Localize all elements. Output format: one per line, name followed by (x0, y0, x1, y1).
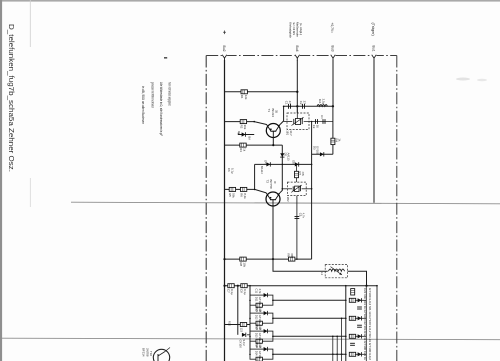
svg-text:R1: R1 (240, 95, 244, 99)
node T2 emitter rail (272, 258, 274, 260)
row 4 loop (250, 349, 273, 359)
wire row bus (249, 286, 251, 353)
svg-text:BA114: BA114 (260, 166, 264, 174)
svg-text:0,1µ: 0,1µ (243, 289, 247, 295)
capacitor inter-row 3 (350, 343, 355, 345)
capacitor C1 (289, 104, 291, 109)
wire xtal2 right (302, 188, 312, 190)
svg-text:680: 680 (290, 253, 294, 258)
wire L1 out (348, 271, 367, 286)
svg-text:R5: R5 (228, 193, 232, 197)
node row 3 cross (345, 335, 347, 337)
wire bus Bu2 (224, 60, 226, 361)
svg-text:BF224: BF224 (271, 109, 275, 118)
wire xtal2 left (282, 188, 292, 190)
wire T1 base feed (225, 122, 267, 125)
resistor top right (351, 289, 355, 295)
node T1 coll (283, 106, 285, 108)
svg-text:C4: C4 (320, 115, 324, 119)
svg-text:4,7k: 4,7k (258, 325, 262, 331)
diode D14 (264, 347, 268, 351)
wire far right drop (376, 286, 378, 361)
wire R7 bot (296, 178, 298, 182)
svg-text:in dB, 50Ω an allen Buchsen: in dB, 50Ω an allen Buchsen (141, 86, 145, 124)
inductor L1 arrow (331, 267, 342, 275)
wire base drop (255, 164, 267, 193)
wire row 2 out (273, 317, 346, 319)
resistor R2 (240, 120, 246, 124)
node drop a (332, 336, 334, 338)
node C5 rail (296, 258, 298, 260)
node T1 emitter (272, 144, 274, 146)
svg-text:35: 35 (274, 110, 278, 113)
svg-text:R2: R2 (239, 125, 243, 129)
row 3 loop (250, 331, 273, 341)
node osc1 right (332, 105, 334, 107)
wire Bu4 into box (296, 106, 298, 118)
wire L1 feed (273, 259, 328, 271)
diode D2 (280, 153, 284, 157)
transistor T2 (266, 192, 280, 206)
svg-text:T10: T10 (149, 351, 153, 356)
wire row2 drop c (341, 318, 343, 361)
transistor T1 (266, 124, 280, 138)
wire xtal1 right (304, 121, 333, 123)
svg-text:L1: L1 (320, 272, 324, 276)
svg-text:9-0,2: 9-0,2 (242, 340, 246, 346)
svg-text:(Träger): (Träger) (371, 23, 375, 36)
svg-text:4,7k: 4,7k (258, 343, 262, 349)
row 2 loop (250, 313, 273, 323)
svg-text:0,1µ: 0,1µ (230, 289, 234, 295)
terminal Bu3 (330, 55, 335, 61)
wire row 1 out (273, 299, 346, 301)
wire bottom bus (225, 285, 378, 287)
inductor Dr1 (317, 105, 327, 107)
resistor R23 (256, 339, 262, 343)
diode D1 (242, 132, 246, 136)
resistor R5 (229, 187, 235, 191)
node osc1/Bu4 (296, 105, 298, 107)
node row4 cross c (341, 353, 343, 355)
capacitor inter-row 1 (357, 307, 362, 309)
svg-text:GY100: GY100 (258, 333, 262, 342)
svg-text:GY100: GY100 (258, 351, 262, 360)
resistor R22 (256, 321, 262, 325)
node row4 cross a (332, 353, 334, 355)
wire C5 branch (296, 196, 298, 260)
diode row 3 right (358, 334, 362, 338)
wire diode branch (239, 134, 255, 136)
wire right feeder (365, 286, 367, 361)
crystal Q1 (292, 117, 304, 125)
svg-text:D_telefunken_fug7b_scha5a Zehn: D_telefunken_fug7b_scha5a Zehner Osz. (7, 24, 16, 172)
wire right riser (345, 286, 347, 361)
svg-text:C6: C6 (227, 168, 231, 172)
diode D13 (264, 329, 268, 333)
resistor row 1 right (349, 298, 355, 302)
svg-text:C12: C12 (255, 307, 259, 312)
node bus row (249, 285, 251, 287)
node row4 cross b (336, 353, 338, 355)
diode D12 (264, 311, 268, 315)
frame border (205, 56, 207, 361)
svg-text:C14: C14 (255, 343, 259, 348)
svg-text:D11: D11 (254, 297, 258, 302)
wire row stub (225, 324, 251, 326)
diode D5 (295, 162, 299, 166)
wire emitter rail (225, 258, 312, 260)
node rail left (223, 258, 225, 260)
svg-text:gemessen mit Röhrenvoltmeter: gemessen mit Röhrenvoltmeter (151, 82, 155, 108)
svg-text:R8: R8 (239, 262, 243, 266)
svg-text:T1: T1 (267, 109, 271, 113)
svg-text:C7: C7 (227, 289, 231, 293)
wire right branch (332, 106, 334, 154)
svg-text:D13: D13 (254, 333, 258, 338)
resistor R12 (240, 323, 246, 327)
svg-text:R9: R9 (286, 253, 290, 257)
wire row 2 right (355, 317, 367, 319)
node D3 left (311, 164, 313, 166)
row 1 loop (250, 295, 273, 305)
wire T2 emitter (272, 206, 274, 259)
wire row 3 out (273, 335, 346, 337)
node link/diode (282, 164, 284, 166)
resistor R9 (289, 257, 295, 261)
node base join (253, 121, 255, 123)
resistor R21 (256, 303, 262, 307)
terminal Bu1 (371, 55, 376, 61)
resistor row 2 right (349, 316, 355, 320)
terminal Bu2 (222, 55, 227, 61)
svg-text:GY100 9-0,2 SD-19 GY100 9-0,2: GY100 9-0,2 SD-19 GY100 9-0,2 SD-19 GY10… (368, 288, 372, 360)
svg-text:Dr1: Dr1 (318, 99, 322, 104)
wire row 4 out (273, 353, 346, 355)
svg-text:GY100: GY100 (258, 297, 262, 306)
svg-text:D14: D14 (254, 351, 258, 356)
wire xtal1 left (284, 121, 293, 123)
node row 2 cross (345, 317, 347, 319)
svg-text:30: 30 (315, 125, 319, 128)
wire diode line (255, 163, 312, 165)
resistor row 4 right (349, 352, 355, 356)
resistor R1 (241, 90, 247, 94)
svg-text:IX: IX (273, 181, 277, 184)
capacitor C4 (323, 119, 325, 124)
node drop b (336, 336, 338, 338)
svg-text:BF214: BF214 (142, 348, 146, 357)
node row 1 cross (345, 299, 347, 301)
node far right (376, 285, 378, 287)
wire row 3 right (355, 335, 367, 337)
node bus L1 (365, 285, 367, 287)
svg-text:BA: BA (248, 136, 252, 140)
svg-text:C21 10n R31 1k GY100 C22 10n R: C21 10n R31 1k GY100 C22 10n R32 1k GY10… (363, 288, 367, 361)
svg-text:4,7k: 4,7k (258, 289, 262, 295)
resistor R6 (240, 187, 246, 191)
node drop c (341, 318, 343, 320)
node bus left (223, 285, 225, 287)
svg-text:GY100: GY100 (316, 146, 320, 155)
diode D11 (264, 293, 268, 297)
svg-text:123: 123 (239, 328, 243, 333)
svg-text:10k: 10k (243, 262, 247, 267)
svg-text:Bu4: Bu4 (295, 46, 299, 52)
capacitor C3 (316, 119, 318, 124)
node row 3 left (249, 336, 251, 338)
terminal Bu4 (295, 55, 300, 61)
wire R1 feed (225, 91, 298, 93)
svg-text:(s. Abgl.): (s. Abgl.) (299, 23, 303, 35)
wire osc1 top (284, 105, 333, 107)
svg-text:27: 27 (302, 101, 306, 105)
diode D6 (242, 333, 246, 337)
svg-text:39k: 39k (243, 125, 247, 130)
wire mid vertical (311, 122, 313, 260)
diode D3 (320, 152, 324, 156)
svg-text:Werksabgleich: Werksabgleich (289, 22, 293, 38)
svg-text:Wenn nicht anders angegeben:: Wenn nicht anders angegeben: (167, 82, 171, 106)
node T2 base (254, 189, 256, 191)
wire T1 emitter wire (225, 144, 283, 146)
svg-text:D5: D5 (291, 160, 295, 164)
transistor T3 (153, 349, 169, 361)
svg-text:12k: 12k (244, 95, 248, 100)
wire Bu1 down (373, 60, 375, 203)
crystal Q2 box (287, 182, 306, 196)
crystal Q1 box (287, 113, 309, 129)
capacitor C5 (295, 217, 300, 219)
svg-text:+0,7V≈: +0,7V≈ (330, 23, 334, 34)
wire D6 out (247, 334, 250, 336)
svg-text:Meßsender: Meßsender (296, 22, 300, 37)
test point mark (223, 31, 226, 35)
node row 4 cross (345, 353, 347, 355)
svg-text:T2: T2 (266, 180, 270, 184)
wire Bu3 down (332, 60, 334, 106)
resistor R11 (241, 284, 247, 288)
svg-text:C13: C13 (255, 325, 259, 330)
svg-text:R12: R12 (227, 321, 231, 326)
node Bu4/R1 (296, 91, 298, 93)
resistor R24 (256, 357, 262, 361)
inductor L1 box (325, 265, 347, 278)
wire T1 collector (280, 106, 283, 124)
capacitor inter-row 2 (357, 325, 362, 327)
diode row 1 right (358, 298, 362, 302)
crystal Q2 (291, 185, 301, 192)
resistor R7 (295, 171, 299, 177)
svg-text:Bu2: Bu2 (222, 46, 226, 52)
wire Bu4 down (296, 60, 298, 113)
svg-text:Bu1: Bu1 (372, 46, 376, 52)
svg-text:56k: 56k (232, 193, 236, 198)
svg-text:BCY58: BCY58 (269, 180, 273, 190)
resistor R3 (240, 143, 246, 147)
svg-text:47: 47 (288, 101, 292, 105)
svg-text:nur mit MS: nur mit MS (292, 22, 296, 35)
resistor R4 (331, 138, 335, 144)
wire tap vertical (237, 286, 239, 335)
diode D4 (266, 162, 270, 166)
svg-text:1B1: 1B1 (286, 130, 290, 135)
wire T1/T2 link (280, 145, 282, 193)
svg-text:D4: D4 (263, 160, 267, 164)
svg-text:1B2: 1B2 (286, 197, 290, 202)
svg-text:Alle Widerstände in Ω, alle Ko: Alle Widerstände in Ω, alle Kondensatore… (159, 82, 163, 136)
svg-text:GY100: GY100 (258, 315, 262, 324)
wire R7 top (296, 164, 298, 171)
wire row 1 right (355, 299, 367, 301)
svg-text:8,2k: 8,2k (243, 193, 247, 199)
diode row 2 right (358, 316, 362, 320)
node row 3 out (272, 336, 274, 338)
capacitor C2 (303, 104, 305, 109)
svg-text:AA113: AA113 (287, 153, 291, 161)
node row 2 out (272, 318, 274, 320)
node row 4 out (272, 354, 274, 356)
svg-text:C8: C8 (240, 289, 244, 293)
node bus tap (237, 285, 239, 287)
wire T1 emitter (272, 138, 274, 145)
resistor row 3 right (349, 334, 355, 338)
svg-text:R6: R6 (239, 193, 243, 197)
svg-text:Bu3: Bu3 (331, 46, 335, 52)
node xtal1/vert (311, 121, 313, 123)
node R7 top (296, 164, 298, 166)
resistor R10 (228, 284, 234, 288)
svg-text:4,7n: 4,7n (302, 213, 306, 219)
svg-text:C11: C11 (255, 289, 259, 294)
svg-text:D1: D1 (237, 131, 241, 135)
svg-text:4,7k: 4,7k (258, 307, 262, 313)
node row 2 left (249, 318, 251, 320)
svg-text:2N708: 2N708 (145, 348, 149, 357)
wire T2 base feed (225, 188, 255, 190)
node row 1 out (272, 300, 274, 302)
wire diode row (312, 153, 333, 155)
svg-text:GY100: GY100 (238, 340, 242, 349)
node row 4 left (249, 354, 251, 356)
node row 1 left (249, 300, 251, 302)
svg-text:D12: D12 (254, 315, 258, 320)
inductor L1 (329, 269, 345, 271)
node xtal2 right (311, 188, 313, 190)
resistor R8 (240, 257, 246, 261)
wire row 4 right (355, 353, 367, 355)
svg-text:47k: 47k (301, 172, 305, 177)
svg-text:R3: R3 (239, 148, 243, 152)
svg-text:0,1µ: 0,1µ (231, 168, 235, 174)
wire row3 drop b (336, 336, 338, 361)
svg-text:10,7: 10,7 (289, 130, 293, 136)
wire row3 drop a (332, 336, 334, 361)
node xtal2 left (282, 188, 284, 190)
node bus right (345, 285, 347, 287)
svg-text:2,5µ: 2,5µ (321, 99, 325, 105)
diode row 4 right (358, 352, 362, 356)
